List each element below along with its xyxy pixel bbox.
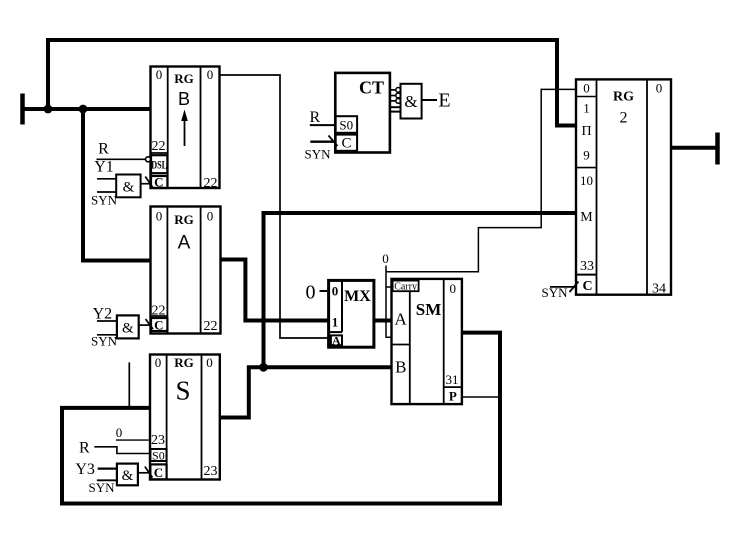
svg-text:23: 23 (204, 464, 218, 479)
svg-text:P: P (449, 389, 457, 404)
svg-text:S0: S0 (152, 449, 165, 463)
svg-text:RG: RG (174, 212, 194, 227)
wire: stub into SM below A (386, 335, 392, 338)
wire: Y1 into AND gate (97, 178, 116, 180)
svg-text:0: 0 (207, 67, 214, 82)
RG2 divider under pin 0 (576, 96, 597, 98)
RG B DSL input box (151, 155, 167, 173)
svg-text:SYN: SYN (91, 193, 118, 208)
svg-text:0: 0 (155, 355, 162, 370)
svg-text:22: 22 (204, 319, 218, 334)
wire: U3 output to RG S C (138, 472, 150, 474)
svg-text:&: & (122, 468, 134, 484)
RG A outline (151, 207, 221, 334)
svg-text:RG: RG (613, 90, 634, 105)
svg-text:0: 0 (306, 282, 316, 304)
svg-text:RG: RG (174, 71, 194, 86)
svg-text:A: A (394, 310, 407, 329)
svg-text:0: 0 (332, 284, 339, 299)
svg-text:&: & (122, 321, 134, 337)
wire: U1 output to RG B C (141, 183, 151, 185)
svg-text:Y3: Y3 (75, 461, 95, 478)
wire: U4 output to E (422, 99, 437, 101)
svg-text:31: 31 (446, 372, 459, 387)
wire: SYN to CT C (310, 140, 335, 142)
wire: branch bus down into RG A input (83, 109, 151, 261)
AND gate U2 (RG A clock gate) (117, 315, 139, 338)
wire: top bus from left junction to RG2 pin P (48, 40, 576, 126)
counter CT (335, 73, 390, 153)
wire: RG S output up to junction (220, 367, 264, 417)
svg-text:0: 0 (656, 81, 663, 96)
wire: U2 output to RG A C (139, 324, 151, 326)
wire: RG A output down to MX input 1 (221, 260, 329, 321)
RG S column dividers (166, 355, 168, 480)
CT output lines into NAND gate (390, 89, 396, 91)
svg-text:MX: MX (344, 288, 371, 305)
SM P divider (444, 386, 462, 388)
wire: stub into Carry box (386, 286, 393, 288)
SM input column divider (409, 291, 411, 404)
svg-text:9: 9 (583, 148, 590, 163)
RG S S0 input box (150, 449, 166, 461)
svg-text:C: C (582, 279, 592, 294)
svg-text:B: B (178, 89, 190, 109)
svg-text:0: 0 (382, 251, 389, 266)
svg-text:C: C (154, 175, 163, 190)
svg-text:33: 33 (580, 259, 594, 274)
svg-text:E: E (438, 90, 450, 112)
CT outline (335, 73, 390, 153)
wire: carry-0 vertical past Carry box (385, 266, 387, 337)
svg-text:0: 0 (156, 209, 163, 224)
register RG B (151, 67, 220, 192)
svg-text:C: C (154, 465, 163, 480)
svg-text:SYN: SYN (304, 147, 331, 162)
wire: RG B output to MX address input A (220, 75, 329, 338)
svg-text:S0: S0 (339, 118, 353, 133)
svg-text:DSL: DSL (151, 159, 167, 172)
RG S C input box (150, 464, 166, 479)
svg-text:SYN: SYN (88, 480, 115, 495)
svg-text:SYN: SYN (91, 334, 118, 349)
RG2 column dividers (596, 79, 598, 294)
svg-text:22: 22 (204, 176, 218, 191)
inverter bubble at RG B DSL input (146, 157, 151, 162)
wire: junction to SM input B (264, 365, 392, 369)
CT S0 input box (336, 116, 358, 133)
register RG S (150, 355, 220, 481)
svg-text:0: 0 (156, 67, 163, 82)
AND gate U3 (RG S clock gate) (117, 464, 138, 486)
wire: main left bus horizontal into RG B (21, 107, 152, 111)
wire: MX output to SM input A (374, 319, 392, 323)
svg-text:10: 10 (580, 173, 593, 188)
RG B shift-up arrow (184, 116, 186, 146)
svg-text:1: 1 (332, 315, 339, 330)
wire: R to RG B DSL (97, 158, 146, 160)
RG2 outline (576, 79, 671, 294)
svg-text:Π: Π (581, 124, 591, 139)
svg-text:C: C (154, 318, 163, 333)
svg-text:R: R (98, 141, 109, 158)
wire: SYN into AND gate (97, 191, 116, 193)
RG B C input box (151, 176, 167, 188)
SM A/B divider (392, 344, 410, 346)
svg-text:A: A (332, 334, 341, 348)
input bus terminal (left T-bar) (20, 94, 25, 125)
wire: SYN to RG2 C (550, 286, 576, 288)
svg-text:Y1: Y1 (94, 159, 114, 176)
dynamic-input slash at RG A C (146, 319, 154, 329)
wire: SYN into AND gate (97, 334, 117, 336)
MX data column divider (341, 280, 343, 332)
register RG A (151, 207, 221, 335)
svg-text:RG: RG (174, 355, 194, 370)
wire: SM sum output feedback loop to RG S input (62, 333, 500, 504)
svg-text:0: 0 (206, 355, 213, 370)
svg-text:Y2: Y2 (93, 306, 113, 323)
dynamic-input slash at RG S C (145, 467, 153, 478)
RG A C input box (151, 318, 167, 331)
svg-text:M: M (580, 210, 593, 225)
RG B divider under pin 22 (151, 152, 168, 154)
wire: carry-0 net to RG2 pin 0 (386, 89, 576, 271)
svg-text:C: C (341, 136, 351, 152)
RG B column dividers (167, 67, 169, 189)
SM Carry box (393, 281, 419, 292)
wire: constant 0 to RG S pin 23 (116, 439, 150, 441)
wire: bus to RG2 pin M (264, 213, 577, 367)
wire: stub above feedback bus near RG S (128, 362, 130, 406)
wire: R to CT S0 (310, 124, 336, 126)
inverter bubbles at gate inputs (396, 88, 401, 93)
svg-text:Carry: Carry (394, 281, 417, 292)
output bus terminal (right T-bar) (715, 133, 720, 165)
svg-text:0: 0 (450, 281, 457, 296)
AND gate U4 (CT decode gate) (401, 84, 422, 119)
SM outline (392, 279, 462, 404)
svg-text:R: R (309, 109, 320, 126)
wire: RG2 output (671, 146, 717, 150)
RG2 divider above C (576, 274, 597, 276)
wire: 0 tie into MX input 0 (320, 290, 328, 292)
svg-text:B: B (395, 358, 406, 377)
MX outline (329, 280, 374, 347)
MX address box A (331, 335, 342, 345)
svg-text:22: 22 (152, 139, 166, 154)
wire: SM P output to feedback bus (462, 396, 500, 398)
svg-text:23: 23 (151, 433, 165, 448)
adder SM (392, 279, 462, 404)
svg-text:R: R (79, 440, 90, 457)
svg-text:0: 0 (583, 81, 590, 96)
svg-text:S: S (175, 376, 190, 406)
dynamic-input slash at RG2 C (570, 282, 579, 293)
node: junction dot at SM B branch (259, 363, 268, 372)
wire: Y2 into AND gate (97, 320, 117, 322)
svg-text:34: 34 (652, 282, 666, 297)
SM output column divider (443, 279, 445, 404)
svg-text:CT: CT (359, 78, 384, 98)
multiplexer MX (329, 280, 374, 347)
wire: Y3 into AND gate (98, 468, 117, 470)
dynamic-input slash at RG B C (145, 177, 152, 188)
AND gate U1 (RG B clock gate) (116, 175, 140, 198)
svg-text:&: & (123, 180, 135, 196)
node: junction dot on left bus (44, 105, 53, 114)
svg-text:2: 2 (620, 110, 628, 127)
RG A column dividers (166, 207, 168, 334)
RG B outline (151, 67, 220, 189)
RG2 divider under pin 9 (576, 167, 597, 169)
CT C input box (336, 135, 358, 151)
svg-text:SM: SM (416, 300, 442, 319)
node: junction dot feeding RG A branch (79, 105, 88, 114)
dynamic-input slash at CT C (329, 136, 338, 147)
RG S outline (150, 355, 220, 480)
register RG 2 (576, 79, 671, 296)
RG A divider under pin 22 (151, 315, 168, 317)
svg-text:A: A (178, 233, 191, 254)
svg-text:&: & (404, 92, 417, 111)
wire: SYN into AND gate (97, 479, 117, 481)
svg-text:1: 1 (583, 101, 590, 116)
wire: R to RG S S0 (94, 447, 150, 454)
svg-text:0: 0 (207, 209, 214, 224)
svg-text:0: 0 (116, 425, 123, 440)
